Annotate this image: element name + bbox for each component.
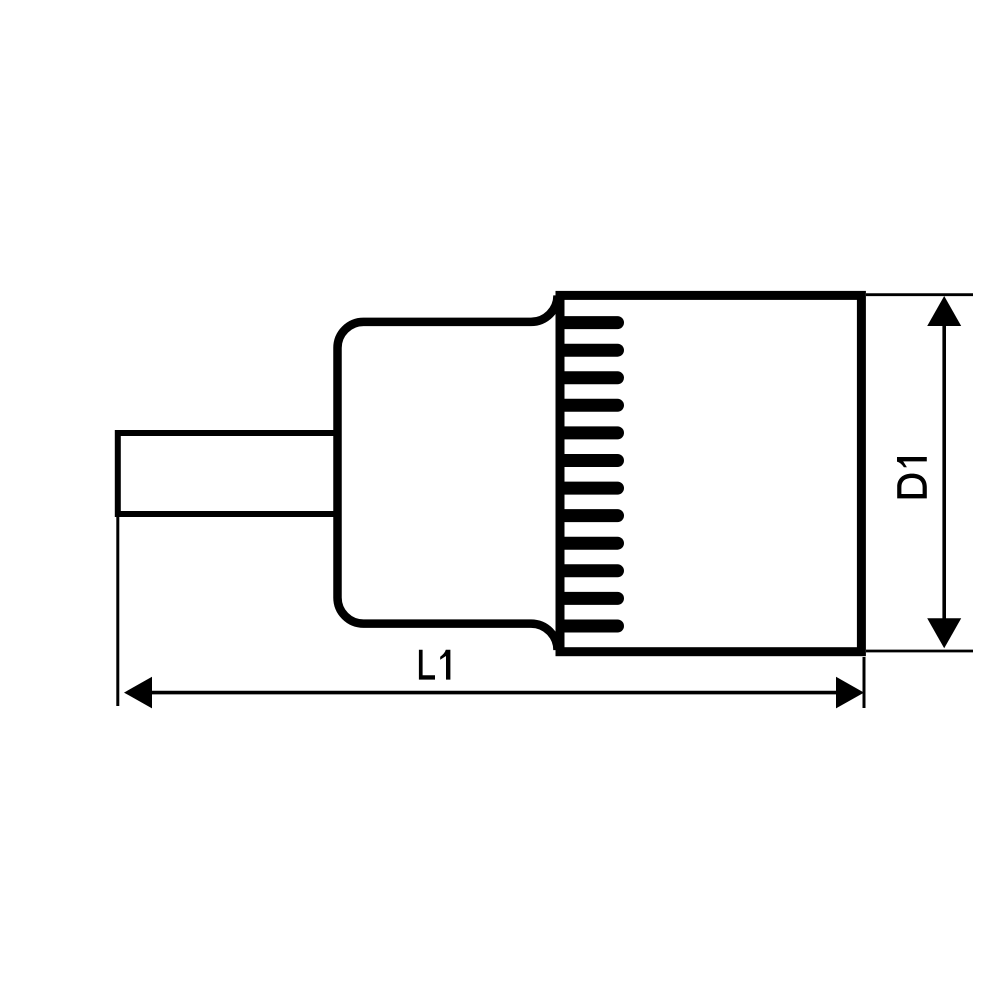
hex shank [118,433,340,514]
arrowhead L1 right [836,677,864,709]
knurl tooth 7 [563,482,618,495]
knurl tooth 10 [563,564,618,577]
knurl tooth 11 [563,592,618,605]
knurl tooth 2 [563,344,618,357]
knurl tooth 4 [563,399,618,412]
socket body [560,295,861,651]
extension line D1 bottom [866,650,973,653]
dimension line D1 [942,315,946,630]
knurl tooth 1 [563,316,618,329]
arrowhead D1 top [927,296,961,326]
arrowhead D1 bottom [927,618,961,648]
knurl tooth 8 [563,509,618,522]
arrowhead L1 left [124,677,152,709]
label D1 [897,457,927,498]
adapter body [338,295,558,650]
extension line right bottom [863,657,866,708]
dimension line L1 [145,691,842,695]
knurl tooth 12 [563,620,618,633]
knurl tooth 6 [563,454,618,467]
label L1 [419,650,451,680]
extension line D1 top [866,293,973,296]
knurl tooth 9 [563,537,618,550]
knurl tooth 5 [563,426,618,439]
extension line left [116,517,119,706]
knurl tooth 3 [563,371,618,384]
